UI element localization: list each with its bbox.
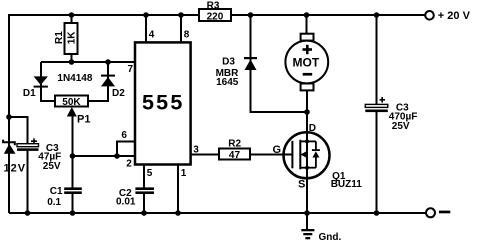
- svg-text:D: D: [309, 123, 316, 134]
- wire D2 branch: [88, 62, 108, 101]
- node zener tap: [6, 114, 12, 120]
- terminal minus: [426, 208, 450, 217]
- diode D1: [23, 76, 48, 99]
- svg-text:12V: 12V: [4, 163, 27, 175]
- wire pin3 to gate: [191, 154, 293, 156]
- node R1 bottom on pin7 net: [69, 59, 75, 65]
- channel bar: [299, 140, 301, 170]
- svg-text:1K: 1K: [67, 31, 78, 45]
- svg-text:1: 1: [181, 168, 187, 179]
- svg-text:P1: P1: [77, 114, 90, 126]
- svg-text:+ 20 V: + 20 V: [438, 10, 471, 22]
- svg-text:220: 220: [207, 11, 224, 22]
- node C2 ground: [141, 210, 147, 216]
- wire R1 top lead: [71, 15, 73, 23]
- node wiper on pin2 net: [70, 153, 76, 159]
- resistor R3: [199, 0, 231, 22]
- capacitor C3b 470uF: [365, 97, 417, 132]
- node pin1 ground: [175, 210, 181, 216]
- capacitor C1: [47, 186, 82, 208]
- svg-text:D2: D2: [112, 88, 125, 99]
- wire P1 wiper down to C1 and ground: [72, 114, 74, 213]
- svg-text:R2: R2: [228, 139, 241, 150]
- wire pin2 net horizontal: [73, 155, 136, 157]
- wire R1 bottom lead: [71, 54, 73, 62]
- body stub with arrow: [300, 154, 307, 156]
- node C3b rail: [374, 12, 380, 18]
- node C3b ground: [374, 210, 380, 216]
- node drain motor D3 junction: [304, 109, 310, 115]
- svg-text:50K: 50K: [62, 97, 81, 108]
- wire zener tap to C3a: [9, 117, 28, 213]
- svg-text:C1: C1: [50, 186, 63, 197]
- svg-text:25V: 25V: [43, 161, 61, 172]
- wire pin5 lead to C2: [143, 165, 145, 214]
- svg-text:R1: R1: [54, 31, 65, 44]
- wire C3b branch: [376, 15, 378, 213]
- svg-text:0.1: 0.1: [47, 197, 61, 208]
- source stub: [300, 167, 316, 169]
- wire pin1 lead to ground: [177, 165, 179, 214]
- svg-text:1N4148: 1N4148: [57, 73, 92, 84]
- diode D2: [101, 75, 125, 99]
- resistor R1: [54, 23, 78, 54]
- svg-text:8: 8: [184, 30, 190, 41]
- wire pin8 lead: [180, 15, 182, 43]
- node pin8 rail: [178, 12, 184, 18]
- wire top supply rail: [9, 14, 425, 16]
- resistor R2: [219, 139, 250, 162]
- wire pin4 lead: [145, 15, 147, 43]
- wire pin6 stub: [117, 142, 135, 156]
- wire motor top lead: [306, 15, 308, 34]
- node motor rail: [304, 12, 310, 18]
- node D2 top on pin7 net: [105, 59, 111, 65]
- body diode: [315, 141, 317, 167]
- wire D3 branch: [251, 15, 308, 112]
- svg-text:2: 2: [126, 158, 132, 169]
- capacitor C3a 47uF: [17, 138, 61, 172]
- IC U1 555 timer: [135, 42, 191, 164]
- wire ground rail: [9, 212, 426, 214]
- drain-source vertical: [306, 133, 308, 179]
- svg-text:BUZ11: BUZ11: [331, 179, 363, 190]
- svg-text:4: 4: [149, 30, 155, 41]
- capacitor C2: [116, 187, 154, 207]
- motor MOT: [285, 34, 328, 91]
- svg-text:D1: D1: [23, 88, 36, 99]
- svg-text:1645: 1645: [216, 77, 239, 88]
- svg-text:7: 7: [128, 64, 134, 75]
- node C1 ground: [70, 210, 76, 216]
- svg-text:6: 6: [121, 130, 127, 141]
- svg-text:47: 47: [229, 150, 241, 161]
- svg-text:0.01: 0.01: [116, 197, 136, 208]
- ground symbol: [301, 213, 341, 243]
- transistor Q1 BUZ11 MOSFET: [284, 132, 330, 178]
- svg-text:555: 555: [142, 90, 184, 114]
- svg-text:3: 3: [193, 144, 199, 155]
- svg-text:MOT: MOT: [293, 55, 320, 69]
- svg-text:5: 5: [147, 168, 153, 179]
- gate lead inside: [284, 154, 293, 156]
- zener diode 12V: [3, 140, 26, 175]
- node C3a ground: [25, 210, 31, 216]
- wire motor bottom to drain and source to ground: [306, 91, 308, 213]
- svg-text:G: G: [273, 144, 282, 156]
- diode D3 MBR1645: [216, 57, 257, 88]
- svg-text:D3: D3: [222, 57, 235, 68]
- potentiometer P1 50K: [55, 96, 90, 126]
- gate bar: [291, 141, 293, 169]
- svg-text:S: S: [298, 179, 305, 191]
- svg-text:R3: R3: [207, 0, 220, 11]
- svg-text:25V: 25V: [392, 121, 410, 132]
- svg-text:Gnd.: Gnd.: [319, 232, 342, 243]
- wire left vertical (zener branch): [8, 14, 10, 213]
- wire D1 branch: [41, 62, 55, 101]
- node R1 top rail: [69, 12, 75, 18]
- node pin6 stub on pin2 net: [114, 153, 120, 159]
- node source ground: [304, 210, 310, 216]
- drain stub: [300, 140, 316, 142]
- node pin4 rail: [143, 12, 149, 18]
- terminal +20V: [425, 10, 470, 22]
- internal junction dots: [305, 139, 309, 143]
- wire pin7 net horizontal: [41, 61, 135, 63]
- node D3 rail: [248, 12, 254, 18]
